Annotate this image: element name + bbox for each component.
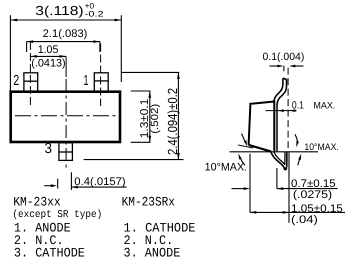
foot lead hook bbox=[271, 152, 287, 170]
svg-text:3: 3 bbox=[45, 141, 53, 157]
seating line bbox=[230, 151, 319, 153]
left 10 deg angle leader lower bbox=[238, 153, 245, 165]
top lead tab bbox=[274, 78, 287, 104]
svg-text:(.04): (.04) bbox=[291, 214, 318, 226]
svg-text:0.1(.004): 0.1(.004) bbox=[263, 51, 305, 63]
pin 3 bbox=[59, 143, 73, 161]
body bottom edge extension bbox=[238, 145, 253, 148]
dimension 2.4(.094)±0.2 bbox=[84, 72, 184, 159]
svg-text:2.1(.083): 2.1(.083) bbox=[43, 28, 88, 40]
svg-text:KM-23xx: KM-23xx bbox=[13, 194, 61, 209]
dimension 1.3±0.1 (.502) bbox=[131, 91, 152, 142]
lead tip plane (dashed) bbox=[287, 68, 289, 151]
pin 2 bbox=[24, 73, 38, 91]
svg-text:1.05: 1.05 bbox=[38, 44, 59, 56]
package body (front view) bbox=[11, 92, 120, 142]
package vertical centerline bbox=[65, 56, 67, 77]
svg-text:-0.2: -0.2 bbox=[85, 9, 105, 18]
svg-text:MAX.: MAX. bbox=[313, 100, 335, 111]
dimension 2.1(.083) bbox=[27, 40, 100, 52]
svg-text:0.4(.0157): 0.4(.0157) bbox=[74, 176, 125, 188]
dimension 1.05±0.15 bbox=[250, 153, 345, 223]
svg-text:2: 2 bbox=[13, 73, 19, 89]
dimension 0.7±0.15 bbox=[232, 168, 338, 190]
svg-text:10°MAX.: 10°MAX. bbox=[205, 162, 248, 174]
svg-text:10°MAX.: 10°MAX. bbox=[304, 142, 338, 153]
right 10 deg angle leader lower bbox=[298, 154, 302, 166]
left 10 deg angle leader upper bbox=[242, 134, 247, 147]
pin 1 bbox=[94, 73, 108, 91]
dimension 0.1 MAX. bbox=[266, 109, 297, 112]
dimension 0.4(.0157) bbox=[44, 172, 126, 190]
lead along body face bbox=[276, 105, 278, 152]
dimension 3(.118) bbox=[10, 15, 121, 91]
svg-text:(.0275): (.0275) bbox=[293, 189, 332, 201]
svg-text:3. ANODE: 3. ANODE bbox=[124, 246, 181, 261]
svg-text:(.502): (.502) bbox=[150, 104, 161, 134]
body horizontal centerline bbox=[15, 115, 121, 117]
svg-text:1: 1 bbox=[84, 73, 89, 89]
svg-text:(.0413): (.0413) bbox=[31, 58, 65, 70]
svg-text:0.1: 0.1 bbox=[292, 99, 304, 111]
side view body bbox=[249, 102, 275, 152]
dimension 1.05 (.0413) bbox=[30, 55, 66, 58]
svg-text:3. CATHODE: 3. CATHODE bbox=[14, 246, 85, 261]
right 10 deg angle leader upper bbox=[295, 134, 299, 147]
dimension 0.1(.004) bbox=[270, 65, 304, 72]
svg-text:(except SR type): (except SR type) bbox=[12, 209, 102, 221]
svg-text:3(.118): 3(.118) bbox=[35, 3, 83, 18]
svg-text:KM-23SRx: KM-23SRx bbox=[122, 194, 176, 209]
pin 1 centerline bbox=[100, 44, 102, 107]
svg-text:2.4(.094)±0.2: 2.4(.094)±0.2 bbox=[165, 88, 180, 155]
pin 2 centerline bbox=[29, 42, 31, 106]
